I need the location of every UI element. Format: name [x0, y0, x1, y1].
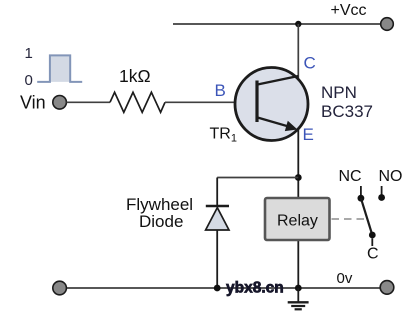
switch NO contact [381, 186, 383, 195]
switch common C contact [369, 232, 376, 239]
resistor R 1k ohm [110, 92, 165, 112]
transistor base bar [255, 81, 258, 123]
terminal +Vcc [381, 18, 394, 31]
ground [288, 288, 309, 309]
diode D flywheel [216, 178, 218, 207]
wire collector vertical [297, 24, 299, 79]
node ground junction [295, 285, 302, 292]
terminal bottom right 0v [380, 281, 394, 295]
switch NC contact [360, 186, 362, 195]
terminal bottom left [53, 281, 67, 295]
node diode branch junction [295, 174, 302, 181]
relay K1 box [265, 198, 330, 240]
wire emitter vertical down to 0v rail [297, 128, 299, 288]
svg-text:C: C [304, 54, 316, 73]
wire Vin to resistor [67, 101, 111, 103]
svg-text:ybx8.cn: ybx8.cn [226, 280, 284, 297]
wire top +Vcc rail [173, 23, 381, 25]
svg-text:Relay: Relay [277, 213, 318, 230]
wire bottom 0v rail [66, 287, 381, 289]
svg-text:NO: NO [379, 168, 403, 185]
transistor Q TR1 body [235, 68, 308, 141]
wire resistor to base [165, 101, 256, 103]
wire dashed relay to switch [332, 218, 367, 220]
svg-text:E: E [303, 125, 314, 144]
transistor emitter stroke with arrow [258, 118, 292, 128]
switch arm [361, 198, 372, 235]
svg-text:NC: NC [339, 168, 362, 185]
svg-text:1: 1 [25, 45, 33, 62]
svg-text:NPN: NPN [321, 83, 357, 102]
svg-text:BC337: BC337 [321, 102, 373, 121]
svg-text:0v: 0v [337, 270, 353, 287]
pulse input waveform icon [37, 55, 82, 82]
svg-text:C: C [367, 246, 379, 263]
svg-text:Diode: Diode [139, 212, 183, 231]
wire diode branch horizontal [217, 177, 298, 179]
transistor collector stroke [258, 76, 299, 85]
node collector junction on +Vcc rail [295, 21, 301, 27]
node diode bottom junction [214, 285, 221, 292]
svg-text:B: B [215, 81, 226, 100]
svg-text:0: 0 [25, 72, 33, 89]
terminal Vin [53, 96, 67, 110]
svg-text:+Vcc: +Vcc [331, 2, 367, 19]
svg-text:Vin: Vin [20, 93, 46, 113]
svg-text:1kΩ: 1kΩ [119, 66, 151, 86]
